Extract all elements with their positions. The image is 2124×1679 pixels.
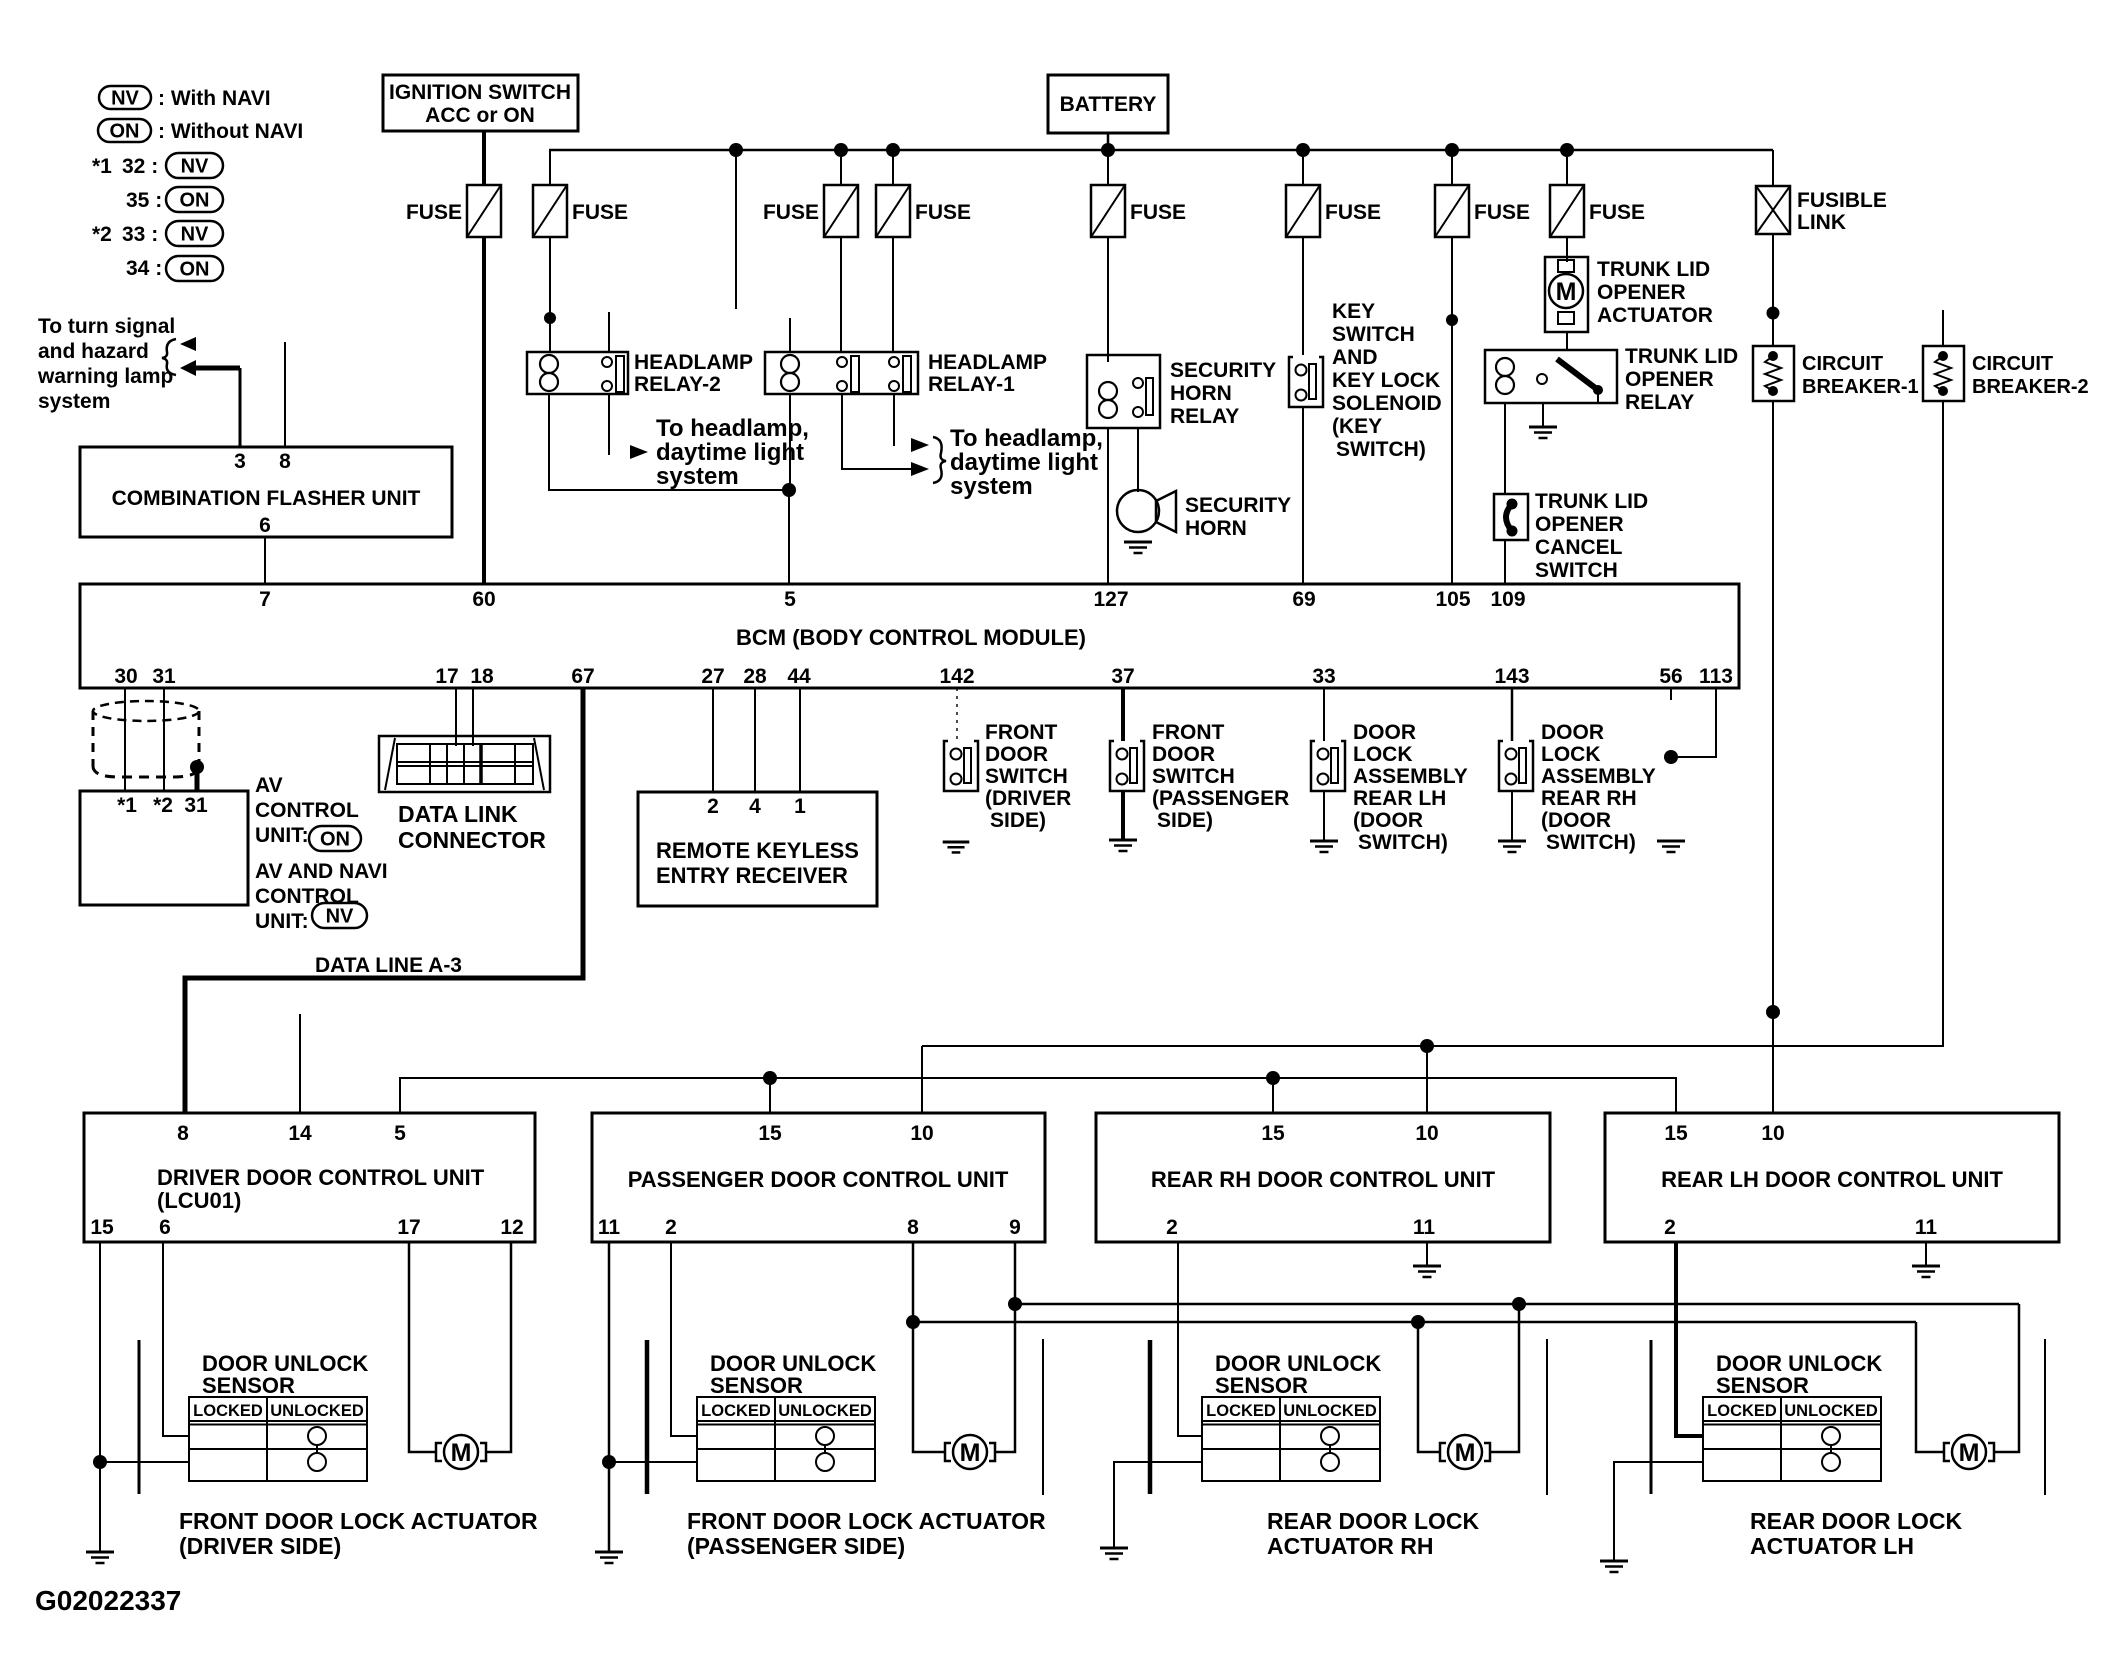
wire bus to fuse F5 bbox=[1107, 150, 1109, 185]
svg-text:REAR RH DOOR CONTROL UNIT: REAR RH DOOR CONTROL UNIT bbox=[1151, 1167, 1496, 1192]
wire BCM pin 30 to AV unit bbox=[124, 688, 126, 791]
svg-text:LINK: LINK bbox=[1797, 211, 1846, 234]
data line A-3 wire (BCM pin 67 to driver door unit pin 8) bbox=[185, 688, 583, 1113]
fuse F8 (trunk lid opener actuator) bbox=[1550, 185, 1645, 237]
svg-text:LOCK: LOCK bbox=[1541, 743, 1601, 766]
ignition switch box bbox=[383, 75, 578, 131]
svg-text:14: 14 bbox=[288, 1122, 312, 1145]
door lock assembly rear RH (door switch) bbox=[1499, 721, 1656, 854]
svg-text:RELAY-1: RELAY-1 bbox=[928, 373, 1015, 396]
wire bus to fuse F2 bbox=[549, 150, 551, 185]
svg-text:113: 113 bbox=[1699, 665, 1733, 688]
svg-text:7: 7 bbox=[259, 588, 271, 611]
wire bus to fuse F7 bbox=[1451, 150, 1453, 185]
relay-1 contact1 bottom wire bbox=[842, 394, 911, 469]
combination flasher unit box bbox=[80, 447, 452, 537]
net wire driver pin5 / pins15 (y1078) bbox=[400, 1078, 1676, 1113]
svg-text:*2: *2 bbox=[92, 223, 112, 246]
relay-1 coil top stub bbox=[789, 318, 791, 352]
svg-text:HORN: HORN bbox=[1185, 517, 1247, 540]
legend *1 32 : NV bbox=[92, 153, 223, 178]
wire net1322 to rear RH motor left bbox=[1418, 1322, 1439, 1452]
svg-text:(DOOR: (DOOR bbox=[1353, 809, 1423, 832]
wire fuse F5 to security horn relay bbox=[1107, 237, 1109, 362]
svg-text:AV: AV bbox=[255, 774, 283, 797]
svg-text:TRUNK LID: TRUNK LID bbox=[1597, 258, 1710, 281]
svg-text:warning lamp: warning lamp bbox=[37, 365, 173, 388]
svg-text:8: 8 bbox=[279, 450, 291, 473]
wire rear LH pin 2 to sensor row 1 bbox=[1676, 1242, 1703, 1436]
svg-text:DRIVER DOOR CONTROL UNIT: DRIVER DOOR CONTROL UNIT bbox=[157, 1165, 485, 1190]
svg-text:UNLOCKED: UNLOCKED bbox=[1283, 1402, 1377, 1420]
door unlock sensor table (passenger) bbox=[697, 1397, 875, 1481]
svg-text:SECURITY: SECURITY bbox=[1170, 359, 1276, 382]
ground for rear LH sensor bbox=[1600, 1561, 1628, 1572]
svg-text:M: M bbox=[1959, 1439, 1980, 1467]
passenger mechanical link bar bbox=[645, 1340, 650, 1494]
fuse F6 (key switch) bbox=[1286, 185, 1381, 237]
svg-text:M: M bbox=[1455, 1439, 1476, 1467]
svg-text:AND: AND bbox=[1332, 346, 1378, 369]
battery box bbox=[1048, 75, 1168, 133]
fuse F7 (BCM pin 105) bbox=[1435, 185, 1530, 237]
junction dot relay coils to BCM pin 5 bbox=[782, 483, 796, 497]
wire net to passenger pin 10 bbox=[921, 1046, 923, 1113]
svg-text:SECURITY: SECURITY bbox=[1185, 494, 1291, 517]
svg-text:(DRIVER: (DRIVER bbox=[985, 787, 1071, 810]
wire to rear RH pin 15 bbox=[1272, 1078, 1274, 1113]
svg-text:15: 15 bbox=[1261, 1122, 1285, 1145]
front door switch driver side bbox=[944, 721, 1071, 832]
wire BCM pin 27 to receiver pin 2 bbox=[712, 688, 714, 792]
ground below passenger door switch bbox=[1109, 840, 1137, 851]
svg-text:AV AND NAVI: AV AND NAVI bbox=[255, 860, 388, 883]
rear RH mechanical link bar bbox=[1148, 1340, 1153, 1494]
BCM (body control module) box bbox=[80, 584, 1739, 688]
wire BCM pin 33 to rear LH door lock assembly bbox=[1323, 688, 1325, 741]
fuse F1 (ignition) bbox=[406, 185, 501, 237]
junction dot passenger pin 8 bbox=[906, 1315, 920, 1329]
wire BCM pin 143 to rear RH door lock assembly bbox=[1511, 688, 1514, 741]
svg-text:system: system bbox=[950, 473, 1033, 500]
wire driver pin 6 to sensor row 1 bbox=[163, 1242, 189, 1436]
svg-text:UNIT:: UNIT: bbox=[255, 910, 309, 933]
arrow to headlamp system (relay-2) bbox=[630, 445, 648, 459]
svg-text:G02022337: G02022337 bbox=[35, 1585, 181, 1616]
junction dot rear RH pin 10 bbox=[1420, 1039, 1434, 1053]
svg-text:*2: *2 bbox=[153, 794, 173, 817]
passenger door control unit box bbox=[592, 1113, 1045, 1242]
svg-text:UNLOCKED: UNLOCKED bbox=[270, 1402, 364, 1420]
fusible link bbox=[1756, 150, 1887, 234]
wire net to rear RH pin 10 bbox=[1426, 1046, 1428, 1113]
svg-text:CIRCUIT: CIRCUIT bbox=[1972, 353, 2053, 375]
svg-text:FUSE: FUSE bbox=[406, 201, 462, 224]
svg-text:To headlamp,: To headlamp, bbox=[656, 415, 809, 442]
svg-text:CIRCUIT: CIRCUIT bbox=[1802, 353, 1883, 375]
wire relay to security horn bbox=[1137, 428, 1139, 492]
svg-text:(LCU01): (LCU01) bbox=[157, 1188, 241, 1213]
rear LH door control unit box bbox=[1605, 1113, 2059, 1242]
legend NV pill : With NAVI bbox=[99, 86, 271, 110]
svg-text:M: M bbox=[1556, 278, 1577, 306]
svg-text:RELAY: RELAY bbox=[1170, 405, 1239, 428]
svg-text:NV: NV bbox=[181, 156, 209, 178]
wire security horn relay to BCM pin 127 bbox=[1107, 428, 1109, 584]
svg-text:(KEY: (KEY bbox=[1332, 415, 1382, 438]
svg-text:ACTUATOR: ACTUATOR bbox=[1597, 304, 1713, 327]
arrows to headlamp system (relay-1) bbox=[911, 437, 946, 483]
svg-text:ON: ON bbox=[180, 259, 210, 281]
svg-text:27: 27 bbox=[701, 665, 724, 688]
wire to passenger pin 15 bbox=[769, 1078, 771, 1113]
svg-text:SWITCH): SWITCH) bbox=[1336, 438, 1426, 461]
svg-text:CANCEL: CANCEL bbox=[1535, 536, 1623, 559]
svg-text:ENTRY RECEIVER: ENTRY RECEIVER bbox=[656, 863, 848, 888]
svg-text:6: 6 bbox=[259, 514, 271, 537]
arrow to turn signal (upper) bbox=[180, 337, 196, 351]
svg-text:(DRIVER SIDE): (DRIVER SIDE) bbox=[179, 1533, 341, 1559]
svg-text:32 :: 32 : bbox=[122, 155, 158, 178]
wire net1304 to rear LH motor right bbox=[1995, 1304, 2019, 1452]
svg-text:FUSE: FUSE bbox=[763, 201, 819, 224]
svg-text:FUSE: FUSE bbox=[915, 201, 971, 224]
security horn relay bbox=[1087, 355, 1276, 428]
wire driver pin 17 to motor left bbox=[409, 1242, 435, 1452]
junction dot pin 56/113 bbox=[1664, 750, 1678, 764]
arrow wire from flasher pin 3 bbox=[180, 360, 240, 447]
svg-text:TRUNK LID: TRUNK LID bbox=[1625, 345, 1738, 368]
label to turn signal system bbox=[37, 315, 175, 413]
ground below driver door switch bbox=[943, 842, 970, 852]
svg-text:system: system bbox=[656, 463, 739, 490]
svg-text:30: 30 bbox=[114, 665, 137, 688]
svg-text:HORN: HORN bbox=[1170, 382, 1232, 405]
fuse F2 (headlamp relay-2 coil) bbox=[533, 185, 628, 237]
svg-text:DOOR: DOOR bbox=[1541, 721, 1604, 744]
ground below passenger pin 11 bbox=[595, 1552, 623, 1563]
svg-text:10: 10 bbox=[1415, 1122, 1438, 1145]
relay-2 coil bottom wire to junction bbox=[549, 394, 789, 490]
svg-text:REAR LH: REAR LH bbox=[1353, 787, 1446, 810]
svg-text:SIDE): SIDE) bbox=[990, 809, 1046, 832]
svg-text:FUSE: FUSE bbox=[1130, 201, 1186, 224]
shield drain wire bbox=[195, 767, 200, 791]
wire net1304 down to passenger motor right bbox=[996, 1304, 1015, 1452]
svg-text:TRUNK LID: TRUNK LID bbox=[1535, 490, 1648, 513]
rail right of rear LH section bbox=[2044, 1339, 2046, 1495]
wire circuit breaker-1 down to rear LH pin 10 bbox=[1772, 401, 1774, 1113]
rail left of rear RH section bbox=[1042, 1339, 1044, 1495]
svg-text:2: 2 bbox=[665, 1216, 677, 1239]
junction dot rear RH pin 15 bbox=[1266, 1071, 1280, 1085]
label to headlamp system (relay-1) bbox=[950, 425, 1103, 500]
svg-text:BREAKER-2: BREAKER-2 bbox=[1972, 376, 2089, 398]
driver mechanical link bar bbox=[138, 1340, 141, 1494]
wire bus to fuse F3 bbox=[840, 150, 842, 185]
wire rear LH assembly to ground bbox=[1323, 791, 1325, 841]
wire trunk relay coil to cancel switch bbox=[1504, 403, 1506, 494]
wire fuse F2 to headlamp relay-2 coil bbox=[549, 237, 551, 352]
svg-text:BCM (BODY CONTROL MODULE): BCM (BODY CONTROL MODULE) bbox=[736, 625, 1086, 650]
wire rear RH pin 2 to sensor row 1 bbox=[1178, 1242, 1202, 1436]
wire driver pin 15 to ground bbox=[99, 1242, 101, 1552]
wire fuse F1 to BCM pin 60 bbox=[482, 237, 486, 584]
svg-text:FUSE: FUSE bbox=[1325, 201, 1381, 224]
net passenger pin 9 to rear motors (y1304) bbox=[1015, 1242, 2019, 1304]
label to headlamp system (relay-2) bbox=[656, 415, 809, 490]
svg-text:NV: NV bbox=[181, 224, 209, 246]
circuit breaker-1 bbox=[1753, 346, 1919, 401]
svg-text:ASSEMBLY: ASSEMBLY bbox=[1353, 765, 1468, 788]
svg-text:LOCKED: LOCKED bbox=[193, 1402, 263, 1420]
svg-text:SWITCH: SWITCH bbox=[985, 765, 1068, 788]
svg-text:8: 8 bbox=[177, 1122, 189, 1145]
svg-text:LOCKED: LOCKED bbox=[1707, 1402, 1777, 1420]
label rear door lock actuator LH bbox=[1750, 1508, 1963, 1559]
wire net1322 down to passenger motor left bbox=[913, 1322, 944, 1452]
wire rear RH pin 11 to ground bbox=[1426, 1242, 1428, 1266]
svg-text:2: 2 bbox=[707, 795, 719, 818]
svg-text:11: 11 bbox=[598, 1216, 621, 1239]
svg-text:SIDE): SIDE) bbox=[1157, 809, 1213, 832]
svg-text:SOLENOID: SOLENOID bbox=[1332, 392, 1442, 415]
wire key switch to BCM pin 69 bbox=[1302, 408, 1304, 584]
svg-text:SWITCH: SWITCH bbox=[1152, 765, 1235, 788]
svg-text:SENSOR: SENSOR bbox=[1716, 1373, 1809, 1398]
svg-text:17: 17 bbox=[397, 1216, 420, 1239]
relay-1 coil bottom stub bbox=[789, 394, 791, 490]
svg-text:2: 2 bbox=[1664, 1216, 1676, 1239]
wire actuator to trunk relay bbox=[1566, 332, 1568, 350]
fuse F4 (headlamp relay-1 contact 2) bbox=[876, 185, 971, 237]
svg-text:KEY LOCK: KEY LOCK bbox=[1332, 369, 1440, 392]
label door unlock sensor (passenger) bbox=[710, 1351, 876, 1398]
security horn bbox=[1117, 490, 1291, 540]
wire BCM pin 18 to data link connector bbox=[472, 688, 474, 746]
wire BCM pin 37 to front door switch passenger bbox=[1121, 688, 1125, 741]
svg-text:15: 15 bbox=[758, 1122, 782, 1145]
legend ON pill : Without NAVI bbox=[98, 119, 303, 143]
svg-text:ACTUATOR LH: ACTUATOR LH bbox=[1750, 1533, 1914, 1559]
ground below driver pin 15 bbox=[86, 1552, 114, 1563]
svg-text:FRONT: FRONT bbox=[1152, 721, 1224, 744]
svg-text:ON: ON bbox=[180, 190, 210, 212]
trunk lid opener relay bbox=[1485, 345, 1738, 414]
svg-text:FUSE: FUSE bbox=[1474, 201, 1530, 224]
wire passenger pin 2 to sensor row 1 bbox=[671, 1242, 697, 1436]
remote keyless entry receiver box bbox=[638, 792, 877, 906]
trunk lid opener actuator bbox=[1545, 257, 1713, 332]
svg-text:M: M bbox=[960, 1439, 981, 1467]
wire BCM pin 17 to data link connector bbox=[455, 688, 457, 746]
svg-text:8: 8 bbox=[907, 1216, 919, 1239]
svg-text:105: 105 bbox=[1435, 588, 1470, 611]
ground for rear RH sensor bbox=[1100, 1548, 1128, 1559]
label door unlock sensor (driver) bbox=[202, 1351, 368, 1398]
svg-text:33: 33 bbox=[1312, 665, 1335, 688]
svg-text:RELAY: RELAY bbox=[1625, 391, 1694, 414]
svg-text:UNIT:: UNIT: bbox=[255, 824, 309, 847]
svg-text:OPENER: OPENER bbox=[1625, 368, 1714, 391]
junction dot rear RH motor right bbox=[1512, 1297, 1526, 1311]
svg-text:33 :: 33 : bbox=[122, 223, 158, 246]
svg-text:9: 9 bbox=[1009, 1216, 1021, 1239]
ground below trunk relay bbox=[1529, 427, 1557, 438]
svg-text:CONNECTOR: CONNECTOR bbox=[398, 827, 546, 853]
svg-text:11: 11 bbox=[1413, 1216, 1436, 1239]
legend 34 : ON bbox=[126, 256, 223, 281]
wire rear RH assembly to ground bbox=[1511, 791, 1513, 841]
svg-text:142: 142 bbox=[939, 665, 974, 688]
svg-text:daytime light: daytime light bbox=[656, 439, 804, 466]
driver door control unit box bbox=[84, 1113, 535, 1242]
net passenger pin 8 to rear motors (y1322) bbox=[913, 1242, 1916, 1322]
svg-text:NV: NV bbox=[326, 906, 354, 928]
svg-text:SWITCH: SWITCH bbox=[1332, 323, 1415, 346]
splice dot on breaker-1 wire bbox=[1766, 1005, 1780, 1019]
svg-text:ACTUATOR RH: ACTUATOR RH bbox=[1267, 1533, 1434, 1559]
ground below rear LH unit bbox=[1912, 1266, 1940, 1277]
door unlock sensor table (driver) bbox=[189, 1397, 367, 1481]
svg-text:BREAKER-1: BREAKER-1 bbox=[1802, 376, 1919, 398]
junction dot passenger pin 11 / sensor bbox=[602, 1455, 616, 1469]
svg-text:BATTERY: BATTERY bbox=[1060, 93, 1157, 116]
rear door lock motor RH bbox=[1440, 1435, 1490, 1469]
door unlock sensor table (rear RH) bbox=[1202, 1397, 1380, 1481]
bus junction dots bbox=[729, 143, 1574, 157]
legend *2 33 : NV bbox=[92, 221, 223, 246]
svg-text:ACC or ON: ACC or ON bbox=[425, 104, 535, 127]
svg-text:60: 60 bbox=[472, 588, 495, 611]
svg-text:56: 56 bbox=[1659, 665, 1682, 688]
ground below rear RH unit bbox=[1413, 1266, 1441, 1277]
wire BCM pin 142 to front door switch driver (faded) bbox=[956, 688, 958, 739]
svg-text:NV: NV bbox=[111, 88, 139, 110]
battery supply bus wire bbox=[549, 149, 1773, 152]
junction dot passenger pin 9 bbox=[1008, 1297, 1022, 1311]
wire driver pin 12 to motor right bbox=[487, 1242, 511, 1452]
wire fuse F3 to relay-1 contact 1 bbox=[840, 237, 842, 352]
wire ignition switch to fuse bbox=[482, 131, 486, 185]
wire fuse F8 to trunk actuator bbox=[1566, 237, 1568, 262]
junction dot passenger pin 15 bbox=[763, 1071, 777, 1085]
svg-text:SENSOR: SENSOR bbox=[710, 1373, 803, 1398]
svg-text:3: 3 bbox=[234, 450, 246, 473]
rear door lock motor LH bbox=[1944, 1435, 1994, 1469]
relay-2 armature bottom stub bbox=[608, 394, 610, 455]
svg-text:LOCKED: LOCKED bbox=[701, 1402, 771, 1420]
svg-text:35 :: 35 : bbox=[126, 189, 162, 212]
splice dot on pin105 wire bbox=[1446, 314, 1458, 326]
svg-text:OPENER: OPENER bbox=[1597, 281, 1686, 304]
ground below rear LH assembly bbox=[1310, 841, 1338, 852]
wire bus to fuse F6 bbox=[1302, 150, 1304, 185]
svg-text:4: 4 bbox=[749, 795, 761, 818]
junction dot driver pin 15 / sensor bbox=[93, 1455, 107, 1469]
brace for turn signal arrows bbox=[162, 339, 176, 375]
legend 35 : ON bbox=[126, 187, 223, 212]
front door lock motor (passenger side) bbox=[945, 1435, 995, 1469]
BCM top pin labels bbox=[259, 588, 1525, 611]
wire net1322 to rear LH motor left bbox=[1916, 1322, 1943, 1452]
svg-text:*1: *1 bbox=[117, 794, 137, 817]
svg-text:HEADLAMP: HEADLAMP bbox=[634, 351, 753, 374]
svg-text:15: 15 bbox=[90, 1216, 114, 1239]
svg-text:DOOR: DOOR bbox=[1152, 743, 1215, 766]
headlamp relay-1 bbox=[765, 351, 1047, 396]
svg-text:FUSIBLE: FUSIBLE bbox=[1797, 189, 1887, 212]
circuit breaker-2 top stub bbox=[1942, 310, 1944, 346]
trunk lid opener cancel switch bbox=[1494, 490, 1648, 582]
svg-text:6: 6 bbox=[159, 1216, 171, 1239]
svg-text:M: M bbox=[451, 1439, 472, 1467]
svg-text:SWITCH): SWITCH) bbox=[1546, 831, 1636, 854]
svg-text:REAR DOOR LOCK: REAR DOOR LOCK bbox=[1267, 1508, 1480, 1534]
svg-text:HEADLAMP: HEADLAMP bbox=[928, 351, 1047, 374]
svg-text:10: 10 bbox=[910, 1122, 933, 1145]
svg-text:DATA LINK: DATA LINK bbox=[398, 801, 518, 827]
svg-text:1: 1 bbox=[794, 795, 806, 818]
svg-text:: Without NAVI: : Without NAVI bbox=[158, 120, 303, 143]
svg-text:31: 31 bbox=[152, 665, 176, 688]
svg-text:18: 18 bbox=[470, 665, 494, 688]
svg-text:KEY: KEY bbox=[1332, 300, 1375, 323]
svg-text:(DOOR: (DOOR bbox=[1541, 809, 1611, 832]
splice dot on relay-2 coil wire bbox=[544, 312, 556, 324]
svg-text:SWITCH): SWITCH) bbox=[1358, 831, 1448, 854]
svg-text:LOCKED: LOCKED bbox=[1206, 1402, 1276, 1420]
svg-text:UNLOCKED: UNLOCKED bbox=[778, 1402, 872, 1420]
svg-text:: With NAVI: : With NAVI bbox=[158, 87, 271, 110]
BCM bottom pin labels bbox=[114, 665, 1733, 688]
front door lock motor (driver side) bbox=[436, 1435, 486, 1469]
svg-text:daytime light: daytime light bbox=[950, 449, 1098, 476]
wire bus to fuse F8 bbox=[1566, 150, 1568, 185]
svg-text:REAR RH: REAR RH bbox=[1541, 787, 1637, 810]
rear RH sensor ground wire bbox=[1114, 1462, 1202, 1548]
svg-text:and hazard: and hazard bbox=[38, 340, 149, 363]
door unlock sensor table (rear LH) bbox=[1703, 1397, 1881, 1481]
label door unlock sensor (rear RH) bbox=[1215, 1351, 1381, 1398]
wire driver pin 14 stub bbox=[299, 1014, 301, 1113]
wire flasher pin 8 stub bbox=[284, 342, 286, 447]
relay-1 contact2 bottom stub bbox=[893, 394, 895, 446]
svg-text:FRONT: FRONT bbox=[985, 721, 1057, 744]
ground below pin 56 bbox=[1657, 841, 1685, 852]
wire cancel switch to BCM pin 109 bbox=[1504, 540, 1506, 584]
svg-text:OPENER: OPENER bbox=[1535, 513, 1624, 536]
svg-text:REAR LH DOOR CONTROL UNIT: REAR LH DOOR CONTROL UNIT bbox=[1661, 1167, 2003, 1192]
svg-text:FUSE: FUSE bbox=[1589, 201, 1645, 224]
svg-text:31: 31 bbox=[184, 794, 208, 817]
wire BCM pin 28 to receiver pin 4 bbox=[754, 688, 756, 792]
wire battery to bus bbox=[1107, 133, 1110, 150]
AV control unit labels bbox=[255, 774, 388, 933]
label front door lock actuator driver side bbox=[179, 1508, 538, 1559]
label rear door lock actuator RH bbox=[1267, 1508, 1480, 1559]
wire fuse F6 to key switch bbox=[1302, 237, 1304, 355]
wire trunk relay contact to ground bbox=[1542, 403, 1544, 427]
svg-text:FRONT DOOR LOCK ACTUATOR: FRONT DOOR LOCK ACTUATOR bbox=[179, 1508, 538, 1534]
shield drain junction dot bbox=[190, 760, 204, 774]
svg-text:10: 10 bbox=[1761, 1122, 1784, 1145]
label front door lock actuator passenger side bbox=[687, 1508, 1046, 1559]
svg-text:127: 127 bbox=[1093, 588, 1128, 611]
key switch and key lock solenoid bbox=[1289, 300, 1442, 461]
circuit breaker-2 bbox=[1923, 346, 2089, 401]
svg-text:To headlamp,: To headlamp, bbox=[950, 425, 1103, 452]
